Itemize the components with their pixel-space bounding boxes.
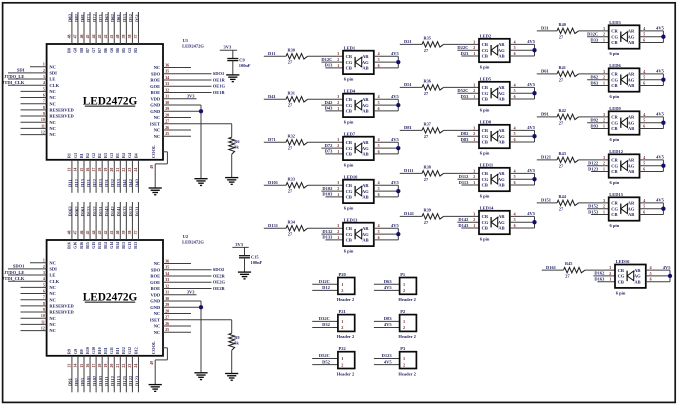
svg-text:SDI: SDI	[49, 70, 57, 75]
ground symbol (U1 GND)	[194, 178, 207, 180]
svg-text:D111: D111	[404, 168, 414, 173]
svg-text:25: 25	[165, 132, 169, 136]
U2 pin 37 wire (net D131)	[137, 202, 139, 240]
junction dot 4V5 (LED1)	[396, 60, 400, 64]
svg-text:5: 5	[643, 76, 645, 80]
resistor R6 8k	[229, 137, 235, 154]
svg-text:LED2: LED2	[480, 33, 492, 38]
svg-text:CR: CR	[611, 72, 618, 77]
svg-text:D62: D62	[590, 75, 598, 80]
svg-text:R12: R12	[121, 347, 126, 354]
wire R32 to pin 3	[308, 141, 344, 143]
wire D61 to R41	[537, 73, 557, 75]
U2 pin 21 wire (net D113)	[119, 356, 121, 393]
svg-text:R6: R6	[234, 139, 240, 144]
svg-text:SDI: SDI	[49, 266, 57, 271]
junction dot 4V5 (LED5)	[532, 91, 536, 95]
svg-text:GND: GND	[150, 103, 161, 108]
svg-text:33: 33	[165, 82, 169, 86]
svg-text:12: 12	[41, 326, 45, 330]
svg-text:1: 1	[603, 210, 605, 214]
svg-text:6: 6	[643, 38, 645, 42]
wire COOL to ground	[163, 151, 167, 153]
svg-text:4: 4	[514, 212, 516, 216]
wire D51 to R36	[400, 86, 422, 88]
wire D63 to P1.1	[374, 283, 400, 285]
wire R35 to pin 3	[444, 43, 480, 45]
svg-text:R40: R40	[559, 22, 566, 27]
svg-text:RESERVED: RESERVED	[49, 107, 74, 112]
svg-text:NC: NC	[154, 128, 161, 133]
svg-text:G7: G7	[91, 48, 96, 53]
wires pins 4,5,6 to 4V5 bus	[374, 55, 399, 57]
svg-text:D143: D143	[104, 206, 109, 217]
svg-text:CG: CG	[482, 48, 489, 53]
svg-text:1: 1	[403, 319, 405, 324]
wire D41 to R31	[264, 98, 286, 100]
wire R40 to pin 3	[579, 30, 609, 32]
svg-text:B9: B9	[79, 349, 84, 354]
svg-text:G1: G1	[73, 153, 78, 158]
svg-text:GND: GND	[150, 299, 161, 304]
LED diode symbol inside LED10	[354, 186, 356, 196]
svg-text:B13: B13	[121, 242, 126, 249]
svg-text:D103: D103	[322, 192, 333, 197]
LED package LED1 (6 pin)	[343, 51, 374, 74]
U1 pin 1 (NC)	[30, 66, 47, 68]
svg-text:AB: AB	[362, 152, 368, 157]
svg-text:2: 2	[609, 272, 611, 276]
svg-text:NC: NC	[49, 126, 56, 131]
junction dot 4V5 (LED16)	[668, 274, 672, 278]
svg-text:D52C: D52C	[319, 353, 330, 358]
svg-text:CR: CR	[611, 29, 618, 34]
wires pins 4,5,6 to 4V5 bus	[646, 269, 670, 271]
svg-text:5: 5	[643, 205, 645, 209]
LED diode symbol inside LED16	[626, 271, 628, 281]
svg-text:4: 4	[378, 95, 380, 99]
U1 pin 22 wire (net D41)	[125, 160, 127, 193]
svg-text:2: 2	[403, 325, 405, 330]
ground symbol (COOL U1)	[149, 187, 162, 189]
svg-text:NC: NC	[154, 330, 161, 335]
svg-text:R13: R13	[133, 242, 138, 249]
U2 pin 48 wire (net D163)	[71, 202, 73, 240]
header P2 (Header 2)	[400, 315, 417, 332]
svg-text:31: 31	[165, 291, 169, 295]
svg-text:VDD: VDD	[150, 292, 160, 297]
svg-text:LED4: LED4	[344, 88, 356, 93]
svg-text:6 pin: 6 pin	[610, 137, 620, 142]
wire U2 GND pins to ground	[200, 301, 202, 373]
wire D11 to R30	[264, 55, 286, 57]
svg-text:35: 35	[165, 70, 169, 74]
svg-text:28: 28	[165, 309, 169, 313]
svg-text:B15: B15	[85, 242, 90, 249]
svg-text:P2: P2	[400, 309, 406, 314]
svg-text:NC: NC	[49, 297, 56, 302]
svg-text:LED12: LED12	[609, 149, 624, 154]
svg-text:1: 1	[473, 224, 475, 228]
svg-text:3: 3	[43, 75, 45, 79]
svg-text:B14: B14	[103, 242, 108, 249]
svg-text:6 pin: 6 pin	[480, 237, 490, 242]
svg-text:11: 11	[41, 320, 45, 324]
wire D53 to pin 1	[461, 98, 479, 100]
svg-text:LE: LE	[49, 77, 55, 82]
capacitor C9 100nF	[227, 58, 238, 60]
svg-text:6 pin: 6 pin	[344, 163, 354, 168]
svg-text:LED2472G: LED2472G	[83, 95, 138, 107]
U1 pin 27 (ISET)	[163, 123, 232, 125]
U2 pin 43 wire (net D151)	[101, 202, 103, 240]
svg-text:AG: AG	[498, 220, 505, 225]
wire D121 to R43	[537, 159, 557, 161]
svg-text:21: 21	[116, 168, 120, 172]
svg-text:CG: CG	[482, 220, 489, 225]
IC U1 LED2472G body	[47, 44, 163, 160]
svg-text:4: 4	[643, 113, 645, 117]
wire ISET to R9	[231, 320, 233, 334]
wire R6 to ground	[231, 154, 233, 177]
svg-text:AG: AG	[362, 189, 369, 194]
U2 pin 16 wire (net D101)	[89, 356, 91, 393]
svg-text:B12: B12	[133, 347, 138, 354]
svg-text:5: 5	[378, 230, 380, 234]
svg-text:3V3: 3V3	[235, 242, 243, 247]
svg-text:22: 22	[122, 168, 126, 172]
svg-text:34: 34	[165, 272, 169, 276]
svg-text:5: 5	[43, 283, 45, 287]
svg-text:CG: CG	[611, 34, 618, 39]
svg-text:4V5: 4V5	[384, 359, 392, 364]
svg-text:D83: D83	[461, 137, 469, 142]
wire D103 to pin 1	[325, 196, 343, 198]
LED diode symbol inside LED6	[620, 75, 622, 85]
svg-text:6: 6	[514, 224, 516, 228]
svg-text:D73: D73	[325, 149, 333, 154]
LED diode symbol inside LED7	[354, 143, 356, 153]
svg-text:D162: D162	[594, 271, 605, 276]
svg-text:20: 20	[110, 364, 114, 368]
svg-text:D43: D43	[325, 106, 333, 111]
svg-text:AR: AR	[498, 85, 505, 90]
svg-text:2: 2	[603, 33, 605, 37]
svg-text:R37: R37	[424, 121, 432, 126]
svg-text:R3: R3	[103, 153, 108, 158]
U2 pin 22 wire (net D121)	[125, 356, 127, 393]
svg-text:ROE: ROE	[150, 78, 160, 83]
svg-text:22: 22	[122, 364, 126, 368]
svg-text:D61: D61	[541, 69, 549, 74]
wire D63 to pin 1	[591, 85, 609, 87]
svg-text:40: 40	[116, 34, 120, 38]
svg-text:49: 49	[150, 165, 154, 169]
svg-text:41: 41	[110, 34, 114, 38]
wire D133 to pin 1	[325, 239, 343, 241]
wires pins 4,5,6 to 4V5 bus	[640, 116, 664, 118]
svg-text:G11: G11	[109, 347, 114, 354]
svg-text:D32C: D32C	[319, 316, 330, 321]
svg-text:43: 43	[98, 230, 102, 234]
U1 pin 36 (NC)	[163, 67, 191, 69]
svg-text:CG: CG	[482, 134, 489, 139]
svg-text:COOL: COOL	[151, 145, 156, 158]
wire R31 to pin 3	[308, 98, 344, 100]
resistor R33 27	[286, 183, 308, 188]
svg-text:6 pin: 6 pin	[480, 65, 490, 70]
svg-text:24: 24	[134, 168, 138, 172]
svg-text:D52C: D52C	[457, 88, 468, 93]
svg-text:R44: R44	[559, 194, 567, 199]
svg-text:AB: AB	[628, 40, 634, 45]
svg-text:8: 8	[43, 302, 45, 306]
svg-text:3: 3	[43, 271, 45, 275]
U2 pin 31 (VDD)	[163, 294, 197, 296]
svg-text:OE2B: OE2B	[213, 286, 225, 291]
svg-text:6 pin: 6 pin	[616, 290, 626, 295]
svg-text:D153: D153	[588, 209, 599, 214]
svg-text:20: 20	[110, 168, 114, 172]
svg-text:CR: CR	[346, 97, 353, 102]
svg-text:D63: D63	[104, 13, 109, 22]
svg-text:27: 27	[165, 316, 169, 320]
resistor R30 27	[286, 54, 308, 59]
svg-text:CG: CG	[482, 91, 489, 96]
svg-text:38: 38	[128, 34, 132, 38]
svg-text:6 pin: 6 pin	[610, 223, 620, 228]
svg-text:28: 28	[165, 113, 169, 117]
U2 pin 24 wire (net D123)	[137, 356, 139, 393]
svg-text:CB: CB	[482, 54, 488, 59]
wire D12C to pin 2	[321, 61, 343, 63]
svg-text:D122: D122	[128, 375, 133, 386]
wire D33 to pin 1	[591, 42, 609, 44]
svg-text:D151: D151	[98, 206, 103, 217]
svg-text:AR: AR	[362, 183, 369, 188]
svg-text:35: 35	[165, 266, 169, 270]
LED package LED16 (6 pin)	[615, 265, 646, 288]
svg-text:41: 41	[110, 230, 114, 234]
svg-text:D23: D23	[461, 51, 469, 56]
svg-text:1: 1	[473, 181, 475, 185]
svg-text:SDO1: SDO1	[213, 71, 225, 76]
svg-text:1: 1	[603, 38, 605, 42]
wire D111 to R38	[400, 172, 422, 174]
wire D131 to R34	[264, 227, 286, 229]
svg-text:NC: NC	[154, 65, 161, 70]
svg-text:2: 2	[341, 288, 343, 293]
svg-text:4V5: 4V5	[656, 69, 664, 74]
header P3 (Header 2)	[400, 352, 417, 369]
svg-text:RESERVED: RESERVED	[49, 114, 74, 119]
svg-text:D153: D153	[86, 206, 91, 217]
wire COOL to ground	[163, 347, 167, 349]
LED package LED10 (6 pin)	[343, 180, 374, 203]
svg-text:30: 30	[165, 297, 169, 301]
U1 pin 23 wire (net D42)	[131, 160, 133, 193]
svg-text:3: 3	[473, 126, 475, 130]
svg-text:CG: CG	[346, 103, 353, 108]
svg-text:44: 44	[92, 230, 96, 234]
svg-text:D161: D161	[546, 265, 557, 270]
U2 pin 5 (NC)	[21, 286, 47, 288]
svg-text:37: 37	[134, 230, 138, 234]
wire R37 to pin 3	[444, 129, 480, 131]
U1 pin 29 (GND)	[163, 110, 201, 112]
svg-text:6: 6	[514, 181, 516, 185]
svg-text:1: 1	[603, 167, 605, 171]
wires pins 4,5,6 to 4V5 bus	[510, 215, 535, 217]
svg-text:B16: B16	[67, 242, 72, 249]
svg-text:OE1G: OE1G	[213, 84, 226, 89]
wire 3V3 to C15	[232, 246, 248, 248]
U1 pin 12 (NC)	[21, 134, 47, 136]
wire D52 to P22.2	[312, 364, 338, 366]
svg-text:36: 36	[165, 63, 169, 67]
svg-text:B10: B10	[97, 347, 102, 354]
resistor R38 27	[422, 171, 444, 176]
wires pins 4,5,6 to 4V5 bus	[640, 202, 664, 204]
wire D143 to pin 1	[461, 227, 479, 229]
LED package LED12 (6 pin)	[609, 154, 640, 177]
svg-text:GOE: GOE	[150, 280, 160, 285]
U2 pin 42 wire (net D143)	[107, 202, 109, 240]
svg-text:LED5: LED5	[480, 76, 492, 81]
svg-text:LED1: LED1	[344, 45, 356, 50]
resistor R31 27	[286, 97, 308, 102]
wire D112 to pin 2	[457, 178, 479, 180]
U1 pin 15 wire (net D13)	[83, 160, 85, 193]
svg-text:AB: AB	[628, 83, 634, 88]
wire ISET to R6	[231, 124, 233, 138]
svg-text:G15: G15	[91, 242, 96, 249]
LED diode symbol inside LED5	[490, 88, 492, 98]
svg-text:SDI: SDI	[17, 68, 25, 73]
svg-text:LE: LE	[49, 273, 55, 278]
svg-text:9: 9	[43, 308, 45, 312]
wire R34 to pin 3	[308, 227, 344, 229]
U1 pin 47 wire (net D82)	[77, 12, 79, 44]
svg-text:4V5: 4V5	[663, 265, 671, 270]
svg-text:AB: AB	[628, 126, 634, 131]
svg-text:CB: CB	[482, 226, 488, 231]
svg-text:D142: D142	[110, 206, 115, 217]
svg-text:NC: NC	[49, 316, 56, 321]
svg-text:6: 6	[514, 95, 516, 99]
wire R44 to pin 3	[579, 202, 609, 204]
svg-text:AB: AB	[498, 183, 504, 188]
svg-text:RESERVED: RESERVED	[49, 303, 74, 308]
wire D132 to pin 2	[321, 233, 343, 235]
U2 pin 2 (SDI)	[8, 268, 47, 270]
svg-text:1: 1	[341, 319, 343, 324]
wire D122 to pin 2	[587, 165, 609, 167]
svg-text:3: 3	[603, 156, 605, 160]
svg-text:D82: D82	[74, 13, 79, 22]
U2 pin 17 wire (net D102)	[95, 356, 97, 393]
svg-text:4V5: 4V5	[527, 168, 535, 173]
svg-text:4: 4	[378, 52, 380, 56]
svg-text:CG: CG	[611, 120, 618, 125]
svg-text:8k: 8k	[234, 145, 239, 150]
svg-text:D122: D122	[588, 161, 599, 166]
svg-text:32: 32	[165, 284, 169, 288]
U2 pin 8 (RESERVED)	[21, 305, 47, 307]
svg-text:AB: AB	[498, 54, 504, 59]
svg-text:D43: D43	[134, 178, 139, 187]
svg-text:LED6: LED6	[609, 63, 621, 68]
junction dot 4V5 (LED15)	[661, 207, 665, 211]
LED diode symbol inside LED9	[620, 118, 622, 128]
svg-text:1: 1	[473, 95, 475, 99]
svg-text:R1: R1	[67, 153, 72, 158]
svg-text:7: 7	[43, 100, 45, 104]
svg-text:2: 2	[473, 132, 475, 136]
svg-text:6 pin: 6 pin	[480, 194, 490, 199]
svg-text:AB: AB	[634, 279, 640, 284]
svg-text:6: 6	[643, 167, 645, 171]
svg-text:CR: CR	[482, 128, 489, 133]
svg-text:D151: D151	[541, 198, 552, 203]
svg-text:G5: G5	[127, 48, 132, 53]
wire D21 to R35	[400, 43, 422, 45]
junction dot 4V5 (LED9)	[661, 121, 665, 125]
wires pins 4,5,6 to 4V5 bus	[374, 227, 399, 229]
svg-text:VDD: VDD	[150, 96, 160, 101]
svg-text:6 pin: 6 pin	[610, 180, 620, 185]
U1 pin 37 wire (net D51)	[137, 12, 139, 44]
svg-text:23: 23	[128, 364, 132, 368]
svg-text:3: 3	[603, 113, 605, 117]
U1 pin 31 (VDD)	[163, 98, 197, 100]
svg-text:B11: B11	[115, 348, 120, 354]
svg-text:D162: D162	[74, 206, 79, 217]
wire D142 to pin 2	[457, 221, 479, 223]
wire D163 to pin 1	[597, 281, 615, 283]
svg-text:D131: D131	[134, 206, 139, 217]
svg-text:4: 4	[378, 224, 380, 228]
wire R30 to pin 3	[308, 55, 344, 57]
U1 pin 11 (NC)	[21, 127, 47, 129]
svg-text:Header 2: Header 2	[337, 297, 355, 302]
U2 pin 20 wire (net D112)	[113, 356, 115, 393]
wire D32 to P21.2	[312, 327, 338, 329]
svg-text:NC: NC	[154, 134, 161, 139]
U2 pin 38 wire (net D132)	[131, 202, 133, 240]
svg-text:AR: AR	[628, 115, 635, 120]
wire D101 to R33	[264, 184, 286, 186]
wire D32C to pin 2	[587, 36, 609, 38]
U2 pin 36 (NC)	[163, 263, 191, 265]
svg-text:G12: G12	[127, 347, 132, 354]
svg-text:R15: R15	[97, 242, 102, 249]
svg-text:25: 25	[165, 328, 169, 332]
svg-text:6 pin: 6 pin	[344, 77, 354, 82]
svg-text:27: 27	[165, 120, 169, 124]
svg-text:8: 8	[43, 106, 45, 110]
svg-text:G4: G4	[127, 153, 132, 158]
svg-text:JTDO_LE: JTDO_LE	[4, 270, 24, 275]
svg-text:CB: CB	[611, 169, 617, 174]
wire R33 to pin 3	[308, 184, 344, 186]
svg-text:4V5: 4V5	[391, 51, 399, 56]
svg-text:P20: P20	[339, 272, 347, 277]
wire R38 to pin 3	[444, 172, 480, 174]
svg-text:R33: R33	[288, 176, 295, 181]
svg-text:AG: AG	[362, 232, 369, 237]
svg-text:D143: D143	[458, 223, 469, 228]
